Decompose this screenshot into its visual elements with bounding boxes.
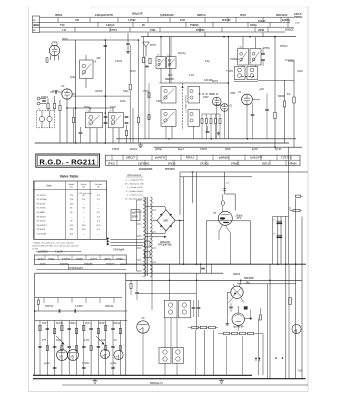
- svg-text:k5449k5306: k5449k5306: [139, 168, 153, 171]
- svg-text:V10 EZ40: V10 EZ40: [37, 234, 48, 236]
- svg-text:pk277: pk277: [90, 258, 97, 261]
- wire v feeder x133: [132, 108, 134, 143]
- coil L10 bandpass can: [161, 86, 176, 103]
- resistor R19: [283, 101, 285, 107]
- resistor R40 right lower: [289, 298, 292, 305]
- svg-text:3F9R: 3F9R: [132, 216, 138, 219]
- svg-text:p9Vk030: p9Vk030: [219, 156, 229, 159]
- svg-text:2kR4p: 2kR4p: [113, 322, 121, 325]
- svg-text:(V): (V): [97, 187, 100, 189]
- svg-text:T59R49: T59R49: [190, 24, 199, 27]
- transistor VT2 lower left: [114, 350, 123, 359]
- valve V2 IF amplifier: [213, 97, 222, 106]
- svg-text:Cathode: Cathode: [95, 183, 102, 186]
- svg-text:Anode: Anode: [69, 183, 74, 186]
- wire feed corner to valve: [225, 193, 236, 195]
- svg-text:2VC.p: 2VC.p: [85, 322, 92, 325]
- output transformer box A: [159, 348, 171, 364]
- svg-text:4R522: 4R522: [55, 14, 63, 17]
- svg-text:k49Cp1RC02TR: k49Cp1RC02TR: [95, 14, 113, 17]
- svg-text:8CT6: 8CT6: [150, 44, 157, 47]
- svg-text:T25V0: T25V0: [112, 148, 120, 151]
- ground near C20: [218, 132, 220, 134]
- choke filter row: [192, 326, 199, 328]
- wire lower right verticals: [226, 336, 228, 375]
- svg-text:1V20.: 1V20.: [40, 263, 47, 266]
- capacitor C20: [206, 131, 210, 133]
- valve V1 frequency changer: [62, 89, 72, 99]
- svg-text:R.G.D. - RG211: R.G.D. - RG211: [39, 157, 96, 166]
- svg-text:FRF5.3: FRF5.3: [186, 156, 195, 159]
- wire HT feed line right mid: [180, 171, 308, 173]
- svg-text:pR76p: pR76p: [104, 258, 112, 261]
- svg-text:V1 6C9/4: V1 6C9/4: [37, 195, 47, 197]
- svg-text:V4: V4: [238, 90, 242, 94]
- lower left components row2: [38, 346, 42, 348]
- capacitors above ground bus: [53, 367, 57, 369]
- resistor R9: [137, 117, 139, 123]
- wire aerial coil to bus: [47, 109, 49, 111]
- svg-text:5F60: 5F60: [62, 38, 68, 41]
- svg-text:RV67: RV67: [212, 80, 219, 83]
- svg-text:pVV0F17: pVV0F17: [155, 156, 166, 159]
- dial cord arrow under bridge: [146, 236, 164, 238]
- svg-text:71TC7CC: 71TC7CC: [281, 156, 292, 159]
- coil L4 L5 IF can: [80, 60, 94, 79]
- wire x258 lower right: [258, 319, 260, 376]
- wire lower section top rail: [120, 263, 306, 265]
- capacitor C15: [145, 65, 149, 67]
- wire right column x295: [295, 199, 297, 265]
- svg-text:879TR6: 879TR6: [196, 29, 205, 32]
- svg-text:05TV51C: 05TV51C: [165, 168, 175, 171]
- svg-text:7.R: 7.R: [62, 29, 66, 32]
- svg-text:3212CC: 3212CC: [285, 28, 294, 31]
- svg-text:Valve: Valve: [46, 185, 52, 187]
- wire HT rail right half: [141, 36, 296, 38]
- coil L11 bandpass can: [161, 110, 176, 127]
- junction dots right mid: [277, 263, 279, 265]
- aerial symbol: [143, 42, 150, 47]
- mains tap panel box: [34, 255, 126, 264]
- wire right link: [258, 80, 294, 82]
- svg-text:V085: V085: [230, 92, 236, 95]
- svg-text:V4 7S7/4: V4 7S7/4: [37, 208, 47, 210]
- wire bridge top feed: [146, 205, 165, 207]
- coil L8 can: [156, 57, 166, 69]
- valve V9 magic eye: [232, 313, 244, 325]
- ground symbol bottom right: [221, 379, 223, 381]
- svg-text:V8 6V6GT: V8 6V6GT: [37, 225, 48, 227]
- svg-text:p044p: p044p: [155, 148, 162, 151]
- terminal strip mid band: [106, 155, 301, 165]
- capacitor C3: [126, 43, 130, 45]
- terminal block U1: [244, 306, 248, 309]
- page edge lines: [28, 7, 30, 392]
- resistor R9b column: [129, 84, 131, 90]
- resistor row right of V4: [242, 76, 244, 78]
- wire dc output drop: [179, 220, 181, 264]
- svg-text:V2: V2: [210, 92, 214, 96]
- wire verticals lower mid right: [195, 330, 197, 375]
- terminal strip ticks: [111, 155, 113, 160]
- svg-text:0903F: 0903F: [278, 95, 285, 98]
- ground symbol bottom left: [94, 379, 96, 381]
- coil L6 first IF transformer: [85, 112, 102, 127]
- svg-text:6.Tp9: 6.Tp9: [99, 339, 106, 342]
- mains tap panel ticks: [44, 255, 46, 260]
- resistor R8: [125, 130, 127, 136]
- svg-text:0FVF: 0FVF: [99, 322, 105, 325]
- driver transformer box A: [164, 300, 177, 318]
- svg-text:8pp.1: 8pp.1: [178, 148, 185, 151]
- wire lower section second rail: [35, 272, 224, 274]
- wire link under V2: [202, 113, 220, 115]
- svg-text:C -- trimmer 1-10: C -- trimmer 1-10: [127, 194, 144, 197]
- wire verticals below bridge: [183, 177, 185, 264]
- output transformer box B: [172, 348, 183, 364]
- svg-text:+: +: [273, 218, 275, 222]
- svg-text:78805C: 78805C: [294, 16, 303, 19]
- resistor R22 V5 grid: [221, 200, 224, 205]
- svg-text:19RC27: 19RC27: [126, 156, 135, 159]
- svg-text:Screen: Screen: [81, 183, 87, 186]
- resistor R18 right column: [274, 112, 276, 119]
- bridge diode arrows: [160, 213, 163, 216]
- wire across lower left: [59, 111, 61, 143]
- wire cans to bus: [165, 126, 167, 139]
- svg-text:C2434: C2434: [115, 60, 123, 63]
- wire lower mid boundary: [125, 273, 127, 375]
- wire triple links arrows to transformer: [111, 239, 143, 241]
- fuse box on transformer A: [145, 241, 151, 247]
- svg-text:7.9p9R: 7.9p9R: [55, 251, 63, 254]
- wire right columns to ground: [269, 264, 271, 379]
- coil L7 second IF transformer: [108, 112, 123, 127]
- valve V6 triode mid: [137, 321, 149, 333]
- wire right column x288: [288, 147, 290, 264]
- svg-text:T -- Tuned at 10k: T -- Tuned at 10k: [127, 186, 144, 189]
- svg-text:2F421: 2F421: [108, 162, 115, 165]
- svg-text:2Fk0C: 2Fk0C: [82, 362, 89, 365]
- wire ground bus lower: [33, 378, 306, 380]
- wire lower left rail B: [35, 320, 128, 322]
- coil L17: [247, 67, 258, 80]
- svg-text:0T5k8C: 0T5k8C: [231, 162, 240, 165]
- svg-text:6121: 6121: [180, 19, 186, 22]
- coil L13 oscillator can: [188, 110, 200, 127]
- svg-text:k2995p: k2995p: [282, 19, 291, 22]
- wire x196 mid column: [196, 273, 198, 330]
- transformer T1 windings: [143, 197, 145, 277]
- transistor VT1 lower left: [100, 349, 109, 358]
- lower left vertical wires: [39, 321, 41, 376]
- svg-text:pV92: pV92: [297, 70, 303, 73]
- strip vertical tick junctions: [57, 17, 59, 22]
- svg-text:R922RC: R922RC: [165, 78, 174, 81]
- valve table header row line: [34, 189, 107, 191]
- up arrows lower right: [255, 357, 257, 359]
- svg-text:7p65k064CF: 7p65k064CF: [160, 14, 174, 17]
- svg-text:VR48: VR48: [258, 29, 265, 32]
- svg-text:41F64: 41F64: [200, 148, 207, 151]
- svg-text:669Ckk: 669Ckk: [105, 305, 114, 308]
- wire chassis bus lower: [154, 146, 302, 148]
- svg-text:0pF7: 0pF7: [132, 212, 138, 215]
- svg-text:FF.: FF.: [142, 24, 146, 27]
- valve V8 output pentode: [231, 286, 243, 298]
- resistor R10 input column: [142, 57, 144, 63]
- wire L6 L7 feeders: [89, 108, 91, 112]
- svg-text:V7 6U7G: V7 6U7G: [37, 221, 46, 223]
- svg-text:5.C325: 5.C325: [75, 305, 83, 308]
- dots lower right: [275, 357, 277, 359]
- terminal strip left end box: [33, 16, 40, 33]
- wire main HT rail upper left: [62, 39, 139, 41]
- svg-text:8.T.: 8.T.: [287, 93, 291, 96]
- svg-text:F65C58: F65C58: [84, 263, 93, 266]
- connection arrows right of table: [107, 237, 110, 240]
- capacitor C35 pair lower mid: [192, 307, 196, 309]
- svg-text:1924.: 1924.: [56, 339, 62, 342]
- capacitor C9 on feeder: [79, 132, 83, 134]
- valve V7 double triode left pair: [57, 350, 68, 361]
- svg-text:20Rk2: 20Rk2: [41, 96, 49, 99]
- svg-text:C32F: C32F: [156, 100, 162, 103]
- svg-text:TUNING GANG C7: TUNING GANG C7: [184, 95, 187, 114]
- lower left components row1: [39, 325, 41, 331]
- svg-text:8.kp: 8.kp: [205, 60, 210, 63]
- resistor row below V2: [201, 119, 203, 124]
- svg-text:113B: 113B: [295, 23, 300, 25]
- wire drop at x192: [191, 172, 193, 203]
- grid capacitor dash row: [199, 93, 201, 95]
- capacitor C5 grid: [55, 90, 57, 94]
- ground symbol mid bus: [140, 143, 142, 145]
- svg-text:.p56: .p56: [259, 88, 264, 91]
- svg-text:P -- Padder 500pF: P -- Padder 500pF: [126, 190, 144, 193]
- svg-text:+: +: [273, 232, 275, 236]
- svg-text:TVC: TVC: [60, 24, 65, 27]
- svg-text:189p: 189p: [123, 90, 129, 93]
- svg-text:2837.9: 2837.9: [262, 162, 270, 165]
- coil L16 discriminator: [234, 67, 245, 80]
- svg-text:p51R6k5: p51R6k5: [38, 251, 49, 254]
- svg-text:TF96R4: TF96R4: [106, 263, 115, 266]
- svg-text:909p2.5R: 909p2.5R: [132, 13, 143, 16]
- svg-text:57514p86: 57514p86: [113, 249, 124, 252]
- svg-text:0VF.k5: 0VF.k5: [258, 20, 266, 23]
- svg-text:992V2: 992V2: [233, 273, 241, 276]
- svg-text:27T.: 27T.: [42, 339, 47, 342]
- wire can feeders: [242, 37, 244, 49]
- wire lower mid rail: [138, 292, 196, 294]
- svg-text:3TR934: 3TR934: [288, 162, 297, 165]
- coil L9 can: [167, 57, 177, 69]
- svg-text:5p5C: 5p5C: [70, 76, 76, 79]
- wire U1 to V9 right: [249, 310, 251, 319]
- coil L12 oscillator can: [188, 86, 200, 103]
- coil L15 can: [250, 49, 261, 66]
- valve V5 tuning indicator: [218, 211, 232, 225]
- fuse box on transformer B: [145, 252, 151, 258]
- capacitor C2 decoupling: [104, 45, 108, 47]
- svg-text:5643p: 5643p: [250, 24, 257, 27]
- svg-text:between W/B and OBD. 20 V with: between W/B and OBD. 20 V with receiver …: [32, 244, 78, 247]
- resistor R26 small: [295, 195, 301, 197]
- wire drops from top strip: [147, 33, 149, 37]
- driver transformer box B: [178, 300, 190, 318]
- wire rail y83 mid right: [159, 82, 228, 84]
- wire verticals lower mid: [151, 264, 153, 310]
- svg-text:MR1: MR1: [163, 220, 169, 223]
- valve V7 second triode: [68, 350, 79, 361]
- svg-text:0kR1: 0kR1: [70, 322, 76, 325]
- svg-text:Valve Table: Valve Table: [60, 175, 79, 179]
- svg-text:3T0k: 3T0k: [150, 29, 156, 32]
- svg-text:Abbreviations:: Abbreviations:: [127, 174, 142, 177]
- wire bridge bottom feed: [146, 233, 165, 235]
- svg-text:5874: 5874: [84, 106, 90, 109]
- svg-text:2574F: 2574F: [116, 258, 123, 261]
- svg-text:RFRCpk.71: RFRCpk.71: [150, 382, 163, 385]
- capacitor C1: [42, 100, 46, 102]
- svg-text:RpV4p: RpV4p: [178, 52, 186, 55]
- ground below C3: [127, 50, 129, 52]
- lower left hookup stubs: [43, 298, 45, 303]
- V8 pin legs: [233, 284, 235, 287]
- svg-text:7T59V: 7T59V: [226, 70, 233, 73]
- svg-text:* Voltage measured at d.c. li: * Voltage measured at d.c. line, valve v…: [32, 241, 73, 244]
- svg-text:.p10p: .p10p: [110, 362, 117, 365]
- resistor R30 near V10: [46, 58, 48, 63]
- svg-text:48851.9: 48851.9: [197, 14, 206, 17]
- transformer T1 core: [145, 197, 147, 276]
- wire right column x285: [285, 217, 287, 265]
- wire right column x302: [301, 217, 303, 265]
- amplifier block outline: [206, 221, 250, 264]
- svg-text:9kV2V: 9kV2V: [130, 148, 138, 151]
- svg-text:4Ck9: 4Ck9: [38, 258, 44, 261]
- capacitor C32 drop: [201, 267, 205, 269]
- svg-text:975Tp: 975Tp: [263, 47, 270, 50]
- svg-text:kV40.: kV40.: [120, 100, 127, 103]
- svg-text:6559: 6559: [288, 60, 294, 63]
- svg-text:.66F: .66F: [96, 57, 101, 60]
- svg-text:189kp: 189kp: [48, 258, 55, 261]
- resistor R1: [47, 103, 49, 109]
- svg-text:7.k9: 7.k9: [297, 370, 302, 373]
- wire bridge dc output: [175, 219, 184, 221]
- svg-text:F82k: F82k: [34, 24, 40, 27]
- valve table column lines: [64, 181, 66, 239]
- potentiometer arrow 1: [56, 336, 64, 344]
- wire bridge left vertex tap: [153, 219, 158, 221]
- wire thin bottom line: [62, 384, 308, 386]
- svg-text:2009.: 2009.: [225, 148, 231, 151]
- transformer secondary taps right: [152, 209, 156, 211]
- svg-text:2.F6: 2.F6: [189, 74, 194, 77]
- wire chassis bus main: [35, 142, 289, 144]
- wire vertical feeder: [75, 40, 77, 143]
- svg-text:3Fp: 3Fp: [246, 281, 251, 284]
- wire V5 feed from top: [224, 172, 226, 194]
- wire vertical feeder 2: [104, 40, 106, 143]
- mains panel small box: [131, 210, 140, 221]
- svg-text:4FC9: 4FC9: [240, 14, 247, 17]
- svg-text:k13818: k13818: [62, 258, 71, 261]
- svg-text:6C232: 6C232: [56, 322, 64, 325]
- svg-text:3FF0: 3FF0: [130, 70, 136, 73]
- wire below tap panel: [36, 269, 126, 271]
- coil L1 L2 aerial coils dashed box: [37, 111, 55, 128]
- capacitor C23 below V4: [251, 114, 255, 116]
- svg-text:kp75.: kp75.: [252, 148, 258, 151]
- resistor R60 left of V6: [130, 284, 132, 289]
- svg-text:380C123C: 380C123C: [276, 14, 288, 17]
- capacitor C50 in rail A: [58, 309, 60, 313]
- resistor R20: [293, 97, 295, 103]
- double tick marks on feed: [223, 187, 226, 189]
- wire top trimmer strip row lines: [40, 16, 295, 18]
- svg-text:5pVRF6F: 5pVRF6F: [233, 326, 244, 329]
- svg-text:8322R0: 8322R0: [60, 263, 69, 266]
- valve V4 AF amplifier: [242, 94, 253, 105]
- svg-text:V6 6X4/4: V6 6X4/4: [37, 216, 47, 218]
- wire HT rail lower right: [126, 279, 302, 281]
- svg-text:02489: 02489: [76, 258, 83, 261]
- bridge rectifier MR1: [157, 210, 175, 231]
- svg-text:(V): (V): [82, 187, 85, 189]
- drops from top rail: [200, 264, 202, 273]
- potentiometer arrow 2: [96, 336, 104, 344]
- svg-text:7C3T: 7C3T: [42, 322, 48, 325]
- capacitor C40 above V9: [229, 306, 233, 308]
- svg-text:CpT65062: CpT65062: [138, 162, 150, 165]
- transformer taps: [137, 199, 142, 201]
- svg-text:VR918: VR918: [95, 90, 103, 93]
- svg-text:525TV2: 525TV2: [45, 305, 54, 308]
- svg-text:k.T9: k.T9: [84, 339, 89, 342]
- junction dots left bus: [66, 107, 68, 109]
- wire rail y96 upper left: [72, 95, 130, 97]
- title box R.G.D. RG211: [36, 154, 100, 167]
- wire rail stub y216: [273, 216, 289, 218]
- svg-text:734R: 734R: [110, 106, 116, 109]
- tuning gang dashed line: [182, 83, 184, 130]
- resistor R25 top right mid: [293, 209, 300, 211]
- svg-text:C.W. dial scale: C.W. dial scale: [78, 193, 92, 195]
- svg-text:C -- coupled to P1a: C -- coupled to P1a: [126, 179, 145, 182]
- capacitor C11 beside L6: [104, 116, 108, 118]
- resistor R51 on left boundary: [37, 300, 39, 305]
- wire V9 right: [244, 318, 251, 320]
- valve V3 detector diode: [221, 104, 229, 112]
- svg-text:VC9kkV: VC9kkV: [230, 58, 239, 61]
- wire V8 cathode drop: [226, 292, 228, 322]
- wire horizontal link y108: [67, 107, 113, 109]
- svg-text:238V: 238V: [203, 96, 209, 99]
- svg-text:7.F592: 7.F592: [128, 19, 136, 22]
- capacitor C60: [135, 292, 139, 294]
- wire ground bus upper: [33, 374, 252, 376]
- svg-text:..0TV: ..0TV: [236, 217, 242, 220]
- resistor R2: [53, 103, 55, 109]
- wire screen rail lower right: [237, 283, 296, 285]
- wire drop x169 from HT rail: [168, 37, 170, 83]
- svg-text:2C1R: 2C1R: [52, 90, 58, 93]
- svg-text:RT0C2: RT0C2: [280, 45, 288, 48]
